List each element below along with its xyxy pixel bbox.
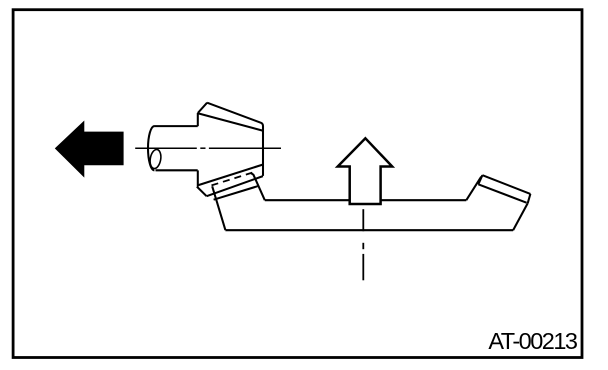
svg-text:AT-00213: AT-00213 xyxy=(488,328,578,354)
